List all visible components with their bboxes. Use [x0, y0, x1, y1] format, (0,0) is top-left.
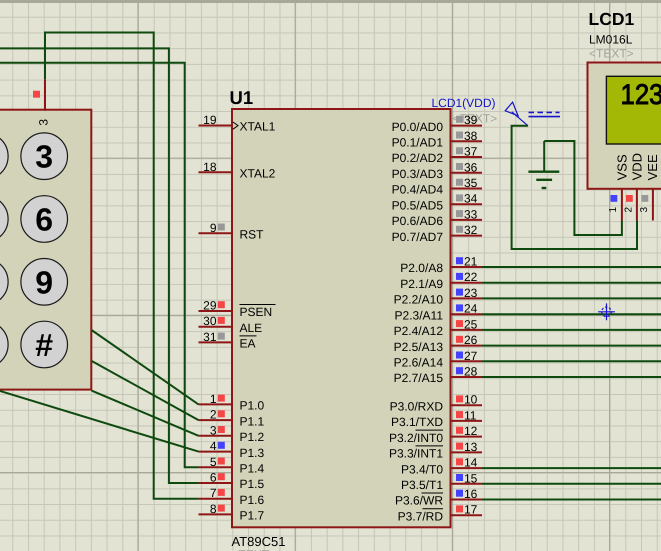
svg-text:2: 2: [623, 207, 634, 213]
svg-text:5: 5: [210, 455, 217, 469]
svg-text:12: 12: [464, 424, 478, 438]
power terminal symbol: [505, 102, 528, 126]
wire from pin 25 to right edge: [482, 329, 661, 331]
U1 pin 23 (P2.2/A10): [394, 286, 482, 307]
U1 pin 3 (P1.2): [199, 423, 265, 444]
svg-text:11: 11: [464, 408, 477, 422]
U1 pin 33 (P0.6/AD6): [392, 207, 482, 228]
U1 pin 37 (P0.2/AD2): [392, 145, 482, 166]
LCD1 pin 2: [623, 189, 637, 221]
wire row to U1 P1.4: [0, 63, 199, 468]
svg-text:22: 22: [464, 270, 478, 284]
svg-text:XTAL2: XTAL2: [240, 167, 276, 181]
svg-text:XTAL1: XTAL1: [240, 120, 276, 134]
wire keypad rowC diagonal to U1 P1.2: [92, 391, 199, 436]
U1 pin 14 (P3.4/T0): [401, 456, 482, 477]
svg-text:1: 1: [608, 207, 619, 213]
U1 pin 2 (P1.1): [199, 408, 265, 429]
U1 pin 21 (P2.0/A8): [400, 255, 482, 276]
keypad button col2 row3 (cut off): [0, 259, 8, 306]
svg-text:30: 30: [203, 314, 217, 328]
svg-text:38: 38: [464, 129, 478, 143]
U1 pin 4 (P1.3): [199, 439, 265, 460]
svg-text:2: 2: [210, 408, 217, 422]
svg-text:4: 4: [210, 439, 217, 453]
svg-text:39: 39: [464, 113, 478, 127]
U1 pin 18 (XTAL2): [199, 160, 276, 181]
svg-text:17: 17: [464, 503, 478, 517]
svg-text:P3.6/WR: P3.6/WR: [395, 494, 443, 508]
svg-text:<TEXT>: <TEXT>: [232, 548, 277, 551]
svg-text:3: 3: [639, 207, 650, 213]
svg-text:3: 3: [35, 139, 53, 175]
svg-text:1: 1: [210, 392, 217, 406]
svg-text:U1: U1: [230, 87, 254, 108]
svg-text:31: 31: [203, 330, 217, 344]
svg-text:21: 21: [464, 255, 478, 269]
svg-text:P3.5/T1: P3.5/T1: [401, 478, 443, 492]
keypad button col2 row1 (cut off): [0, 133, 8, 180]
svg-text:36: 36: [464, 160, 478, 174]
U1 pin 32 (P0.7/AD7): [392, 223, 482, 244]
wire from pin 28 to right edge: [482, 376, 661, 378]
wire from pin 15 to right edge: [482, 483, 661, 485]
U1 pin 6 (P1.5): [199, 471, 265, 492]
U1 pin 8 (P1.7): [199, 502, 265, 523]
U1 pin 27 (P2.6/A14): [394, 349, 482, 370]
svg-text:LCD1(VDD): LCD1(VDD): [432, 96, 496, 110]
U1 pin 12 (P3.2/INT0): [389, 424, 482, 445]
wire power terminal to LCD pin2 VDD: [512, 126, 637, 249]
U1 pin 13 (P3.3/INT1): [389, 440, 482, 461]
keypad button "3": [21, 133, 68, 180]
svg-text:P0.7/AD7: P0.7/AD7: [392, 230, 444, 244]
svg-text:P2.5/A13: P2.5/A13: [394, 340, 444, 354]
wire keypad col3 to U1 P1.6: [45, 33, 199, 499]
svg-text:9: 9: [35, 264, 53, 300]
U1 pin 34 (P0.5/AD5): [392, 192, 482, 213]
svg-text:P0.2/AD2: P0.2/AD2: [392, 151, 444, 165]
svg-text:32: 32: [464, 223, 478, 237]
svg-text:33: 33: [464, 207, 478, 221]
svg-text:9: 9: [210, 221, 217, 235]
svg-text:15: 15: [464, 471, 478, 485]
svg-text:P1.5: P1.5: [240, 477, 265, 491]
svg-text:29: 29: [203, 299, 217, 313]
U1 pin 39 (P0.0/AD0): [392, 113, 482, 134]
svg-text:<TEXT>: <TEXT>: [589, 47, 634, 61]
svg-text:P0.0/AD0: P0.0/AD0: [392, 120, 444, 134]
svg-text:ALE: ALE: [240, 321, 263, 335]
svg-text:LM016L: LM016L: [589, 33, 633, 47]
svg-text:P0.6/AD6: P0.6/AD6: [392, 214, 444, 228]
svg-text:P3.2/INT0: P3.2/INT0: [389, 431, 443, 445]
keypad body: [0, 110, 91, 390]
svg-text:6: 6: [35, 202, 53, 238]
U1 pin 29 (PSEN): [199, 299, 276, 320]
svg-text:13: 13: [464, 440, 478, 454]
svg-text:P3.1/TXD: P3.1/TXD: [391, 415, 443, 429]
LCD1 body: [588, 63, 661, 189]
LCD1 screen: [606, 76, 661, 144]
svg-text:24: 24: [464, 302, 478, 316]
svg-text:P3.7/RD: P3.7/RD: [398, 509, 444, 523]
U1 pin 1 (P1.0): [199, 392, 265, 413]
U1 pin 38 (P0.1/AD1): [392, 129, 482, 150]
svg-text:123: 123: [621, 79, 661, 111]
U1 pin 35 (P0.4/AD4): [392, 176, 482, 197]
svg-text:28: 28: [464, 365, 478, 379]
keypad button "6": [21, 196, 68, 243]
ground symbol: [528, 172, 559, 188]
svg-text:23: 23: [464, 286, 478, 300]
svg-text:26: 26: [464, 333, 478, 347]
svg-text:EA: EA: [240, 337, 256, 351]
svg-text:P2.3/A11: P2.3/A11: [395, 308, 444, 322]
U1 pin 11 (P3.1/TXD): [391, 408, 482, 429]
wire from pin 26 to right edge: [482, 345, 661, 347]
wire from pin 24 to right edge: [482, 313, 661, 315]
svg-text:P2.1/A9: P2.1/A9: [400, 277, 443, 291]
svg-text:P2.7/A15: P2.7/A15: [394, 371, 444, 385]
LCD1 pin 3: [639, 189, 653, 221]
svg-text:16: 16: [464, 487, 478, 501]
power terminal text dashes: [529, 111, 560, 113]
svg-text:P0.5/AD5: P0.5/AD5: [392, 198, 444, 212]
svg-text:#: #: [35, 327, 53, 363]
svg-text:18: 18: [203, 160, 217, 174]
svg-text:19: 19: [203, 113, 217, 127]
U1 pin 15 (P3.5/T1): [401, 471, 482, 492]
U1 pin 16 (P3.6/WR): [395, 487, 482, 508]
svg-text:RST: RST: [240, 228, 265, 242]
svg-text:P2.2/A10: P2.2/A10: [394, 293, 444, 307]
svg-text:34: 34: [464, 192, 478, 206]
svg-text:P2.6/A14: P2.6/A14: [394, 356, 444, 370]
svg-text:P1.1: P1.1: [240, 414, 265, 428]
svg-text:VSS: VSS: [614, 154, 629, 180]
svg-text:LCD1: LCD1: [589, 9, 635, 29]
U1 pin 26 (P2.5/A13): [394, 333, 482, 354]
svg-text:10: 10: [464, 393, 478, 407]
U1 pin 10 (P3.0/RXD): [390, 393, 482, 414]
wire from pin 21 to right edge: [482, 266, 661, 268]
wire keypad rowA diagonal to U1 P1.0: [92, 330, 199, 404]
origin marker: [598, 303, 615, 320]
LCD1 pin 1: [608, 189, 622, 221]
keypad pin state square (red): [33, 91, 40, 98]
keypad column-3 pin stub: [44, 79, 46, 110]
U1 pin 22 (P2.1/A9): [400, 270, 482, 291]
svg-text:P1.3: P1.3: [240, 446, 265, 460]
U1 pin 25 (P2.4/A12): [394, 317, 482, 338]
keypad button col2 row4 (cut off): [0, 321, 8, 368]
svg-text:3: 3: [210, 423, 217, 437]
U1 pin 19 (XTAL1): [199, 113, 276, 134]
wire from pin 23 to right edge: [482, 297, 661, 299]
wire ground stem: [543, 141, 545, 171]
U1 pin 31 (EA): [199, 330, 257, 351]
svg-text:P2.0/A8: P2.0/A8: [400, 261, 443, 275]
U1 pin 24 (P2.3/A11): [395, 302, 482, 323]
svg-text:6: 6: [210, 471, 217, 485]
wire ground to LCD pin1 VSS: [544, 141, 622, 235]
svg-text:14: 14: [464, 456, 478, 470]
keypad button col2 row2 (cut off): [0, 196, 8, 243]
U1 pin 17 (P3.7/RD): [398, 503, 482, 524]
svg-text:P3.0/RXD: P3.0/RXD: [390, 399, 444, 413]
svg-text:VDD: VDD: [630, 153, 645, 180]
svg-text:P2.4/A12: P2.4/A12: [394, 324, 444, 338]
U1 pin 9 (RST): [199, 221, 265, 242]
svg-text:25: 25: [464, 317, 478, 331]
svg-text:3: 3: [36, 119, 50, 126]
svg-text:P3.4/T0: P3.4/T0: [401, 462, 443, 476]
svg-text:P1.6: P1.6: [240, 493, 265, 507]
wire row to U1 P1.5: [0, 48, 199, 483]
svg-text:P0.1/AD1: P0.1/AD1: [392, 136, 444, 150]
svg-text:7: 7: [210, 486, 217, 500]
U1 pin 5 (P1.4): [199, 455, 265, 476]
keypad button "#": [21, 321, 68, 368]
svg-text:P0.4/AD4: P0.4/AD4: [392, 183, 444, 197]
wire keypad rowD diagonal to U1 P1.3: [0, 391, 199, 452]
svg-text:37: 37: [464, 145, 478, 159]
svg-text:PSEN: PSEN: [240, 305, 273, 319]
svg-text:P1.4: P1.4: [240, 462, 265, 476]
U1 pin 36 (P0.3/AD3): [392, 160, 482, 181]
wire keypad rowB diagonal to U1 P1.1: [92, 361, 199, 420]
svg-text:VEE: VEE: [645, 154, 660, 180]
svg-text:27: 27: [464, 349, 478, 363]
svg-text:8: 8: [210, 502, 217, 516]
U1 pin 7 (P1.6): [199, 486, 265, 507]
svg-text:35: 35: [464, 176, 478, 190]
svg-text:P1.2: P1.2: [240, 430, 265, 444]
U1 AT89C51 body: [232, 109, 451, 527]
wire from pin 14 to right edge: [482, 467, 661, 469]
svg-text:P0.3/AD3: P0.3/AD3: [392, 167, 444, 181]
wire from pin 22 to right edge: [482, 282, 661, 284]
U1 pin 30 (ALE): [199, 314, 263, 335]
svg-text:P3.3/INT1: P3.3/INT1: [389, 447, 443, 461]
svg-text:P1.7: P1.7: [240, 509, 265, 523]
U1 pin 28 (P2.7/A15): [394, 365, 482, 386]
keypad button "9": [21, 259, 68, 306]
svg-text:P1.0: P1.0: [240, 399, 265, 413]
wire from pin 16 to right edge: [482, 499, 661, 501]
wire from pin 27 to right edge: [482, 360, 661, 362]
